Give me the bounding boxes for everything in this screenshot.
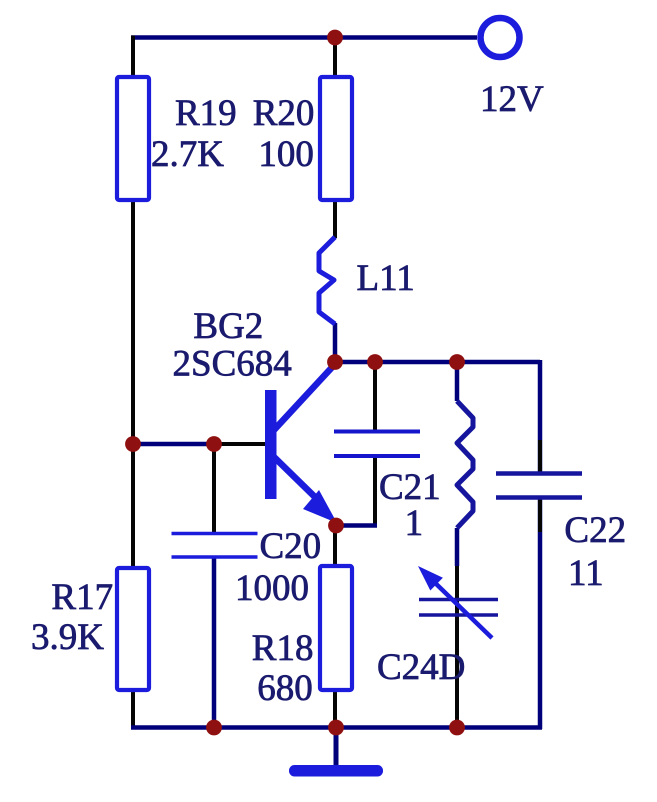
wire base row to transistor — [214, 442, 266, 446]
svg-text:1: 1 — [405, 503, 424, 544]
node junction rail R18 — [328, 720, 344, 736]
node junction rail C24D — [449, 720, 465, 736]
resistor R20 — [320, 77, 352, 200]
svg-text:680: 680 — [257, 668, 313, 709]
wire tank node to coil — [455, 362, 460, 401]
wire base node to R17 — [131, 444, 135, 566]
transistor BG2 emitter lead with arrow — [274, 457, 318, 500]
wire R19 top lead — [131, 36, 135, 77]
inductor tank coil — [457, 401, 473, 528]
wire R20 bottom to L11 — [333, 201, 337, 238]
wire bottom ground rail — [131, 725, 542, 730]
wire C20 bottom to ground rail — [212, 557, 217, 729]
wire black segment above C22 — [538, 440, 542, 472]
wire R17 bottom lead — [131, 692, 135, 729]
wire R18 bottom lead — [333, 692, 337, 729]
node junction C21 top — [367, 354, 383, 370]
svg-text:C21: C21 — [379, 467, 441, 508]
node junction base left — [125, 436, 141, 452]
capacitor C20 — [172, 534, 258, 558]
wire R19 bottom to base node — [131, 201, 135, 446]
wire emitter node to C21 — [335, 523, 377, 528]
wire right riser C22 branch lower — [538, 500, 543, 730]
transistor Q BG2 base bar — [265, 390, 277, 499]
svg-text:100: 100 — [258, 134, 314, 175]
svg-text:2.7K: 2.7K — [151, 134, 224, 175]
terminal 12V — [481, 18, 520, 57]
node junction collector — [327, 354, 343, 370]
node junction base C20 — [206, 436, 222, 452]
wire coil bottom — [455, 528, 460, 566]
svg-text:R20: R20 — [253, 93, 315, 134]
svg-text:BG2: BG2 — [193, 306, 263, 347]
wire right riser C22 branch upper — [538, 360, 543, 472]
svg-text:1000: 1000 — [235, 568, 309, 609]
wire R18 top lead — [333, 525, 337, 564]
wire ground stub — [334, 729, 339, 766]
wire R20 top lead — [333, 39, 337, 76]
svg-text:R19: R19 — [175, 93, 237, 134]
wire C21 bottom lead — [373, 456, 377, 524]
svg-text:C22: C22 — [564, 510, 626, 551]
wire black segment below C22 — [538, 498, 542, 532]
wire C21 top lead — [373, 362, 377, 432]
resistor R18 — [320, 566, 352, 690]
wire C20 top lead — [212, 444, 216, 533]
capacitor C21 — [334, 432, 420, 457]
svg-text:C20: C20 — [260, 526, 322, 567]
wire base row left — [131, 442, 214, 447]
resistor R19 — [117, 77, 149, 200]
wire C24D lead — [455, 566, 459, 727]
svg-text:R18: R18 — [252, 628, 314, 669]
svg-text:R17: R17 — [51, 577, 113, 618]
svg-text:2SC684: 2SC684 — [173, 344, 292, 385]
node junction tank top — [449, 354, 465, 370]
svg-text:3.9K: 3.9K — [31, 617, 104, 658]
inductor L11 — [319, 237, 335, 324]
capacitor C22 — [496, 474, 582, 498]
svg-text:C24D: C24D — [377, 647, 465, 688]
resistor R17 — [117, 568, 149, 690]
svg-text:L11: L11 — [357, 258, 415, 299]
ground — [289, 765, 383, 777]
transistor BG2 collector lead — [274, 363, 336, 430]
node junction emitter — [328, 518, 344, 534]
node junction rail C20 — [206, 720, 222, 736]
svg-text:12V: 12V — [480, 79, 544, 120]
svg-text:11: 11 — [568, 553, 604, 594]
wire top rail 12V — [131, 35, 477, 40]
node junction top rail — [327, 30, 343, 46]
wire collector node row — [335, 360, 540, 365]
wire L11 bottom to collector node — [333, 323, 338, 362]
variable capacitor C24D — [419, 600, 498, 616]
